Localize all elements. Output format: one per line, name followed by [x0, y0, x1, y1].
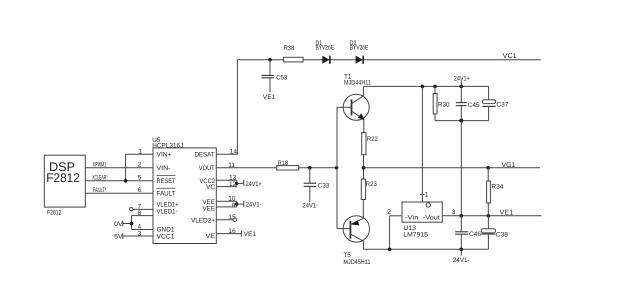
svg-text:5V: 5V	[114, 234, 123, 241]
svg-text:FAULT: FAULT	[157, 191, 176, 198]
node junction R30	[433, 85, 437, 89]
svg-text:-Vin: -Vin	[405, 215, 419, 222]
svg-text:VE1: VE1	[500, 210, 514, 217]
capacitor C46	[455, 216, 481, 250]
wire trunk pin8 to pin4	[131, 216, 133, 230]
svg-text:VIN-: VIN-	[157, 165, 171, 172]
wire top rail (anode/cathode rail to VC1)	[237, 59, 541, 61]
op-amp U5 HCPL316J gate driver IC	[152, 137, 216, 244]
svg-text:DESAT: DESAT	[195, 152, 215, 159]
svg-text:FAULT*: FAULT*	[93, 187, 107, 194]
wire base trunk T1 to T5	[336, 107, 338, 228]
svg-text:VE1: VE1	[244, 231, 257, 238]
svg-text:VLED1+: VLED1+	[157, 202, 179, 209]
svg-text:0V: 0V	[114, 221, 123, 228]
svg-text:BYV26E: BYV26E	[350, 44, 369, 51]
wire pin 1 VIN+ branch from XCLEAR line	[126, 154, 153, 181]
svg-text:BYV26E: BYV26E	[316, 44, 335, 51]
wire FAULT* from DSP to pin 6	[85, 192, 153, 194]
svg-text:VC: VC	[206, 184, 215, 191]
svg-text:24V1+: 24V1+	[454, 75, 470, 82]
wire bottom bus of 24(1)+ cluster	[435, 120, 489, 122]
node junction pins 13-12	[235, 182, 238, 185]
svg-text:R34: R34	[491, 184, 503, 191]
svg-text:VLED2+: VLED2+	[191, 217, 215, 224]
svg-text:VE1: VE1	[263, 94, 276, 101]
wire bottom rail (T5 collector / 24(1)- bus)	[364, 248, 489, 250]
svg-text:R22: R22	[367, 136, 378, 143]
wire pin 7 with no-connect hook	[130, 208, 133, 211]
svg-text:VOUT: VOUT	[199, 165, 215, 172]
capacitor C33	[304, 168, 330, 203]
wire XCLEAR* from DSP to pin 5	[85, 180, 153, 182]
svg-text:C33: C33	[318, 183, 330, 190]
wire VE1 rail from U13 pin 3	[442, 215, 541, 217]
svg-text:-Vout: -Vout	[423, 215, 440, 222]
wire XPWM1 from DSP to pin 2	[85, 167, 153, 169]
resistor R18	[277, 160, 299, 170]
svg-text:F2812: F2812	[46, 171, 80, 185]
svg-text:24V1-: 24V1-	[303, 203, 319, 210]
svg-text:RESET: RESET	[157, 178, 176, 185]
svg-text:14: 14	[230, 148, 238, 155]
wire pin 10 VEE	[216, 200, 236, 202]
svg-text:F2812: F2812	[47, 210, 62, 217]
node junction bus to VE1 drop	[459, 119, 463, 123]
wire bracket pins 13-12	[236, 180, 238, 186]
wire 24(1)+ rail (T1 collector rail)	[363, 85, 488, 87]
svg-text:C38: C38	[496, 231, 508, 238]
diode D1 BYV26E	[316, 40, 335, 64]
svg-text:C46: C46	[469, 231, 481, 238]
wire pin 11 VOUT to R18	[216, 167, 276, 169]
wire U13 pin 2	[390, 215, 402, 217]
svg-text:1: 1	[425, 192, 429, 199]
resistor R38	[283, 45, 303, 62]
wire R23 to T5 emitter	[362, 200, 364, 219]
svg-text:R18: R18	[278, 160, 289, 167]
svg-text:C37: C37	[496, 102, 508, 109]
svg-text:MJD45H11: MJD45H11	[343, 259, 370, 266]
terminal 24(1)+ at pins 13-12	[237, 180, 262, 188]
wire VG1 rail	[364, 167, 541, 169]
node junction R34/C38 on VE1 rail	[487, 214, 491, 218]
svg-text:1: 1	[138, 149, 142, 156]
terminal 24(1)+ above rail	[454, 75, 470, 86]
svg-text:R30: R30	[438, 101, 450, 108]
node junction C46 on VE1 rail	[460, 214, 464, 218]
svg-text:2: 2	[387, 209, 391, 216]
svg-text:5: 5	[138, 175, 142, 182]
capacitor C37 (polarized)	[482, 86, 508, 120]
svg-text:24V1-: 24V1-	[453, 257, 470, 264]
svg-text:C53: C53	[276, 74, 287, 81]
svg-text:24V1-: 24V1-	[246, 202, 262, 209]
svg-text:VC1: VC1	[503, 53, 517, 60]
terminal 0V	[114, 221, 131, 228]
node junction C53 tap on top rail	[268, 58, 272, 62]
svg-text:3: 3	[452, 209, 456, 216]
capacitor C45	[456, 86, 480, 120]
wire drop from bus to VE1 rail	[460, 121, 462, 216]
node junction C33 tap	[308, 166, 312, 170]
capacitor C38 (polarized)	[481, 216, 508, 250]
diode D2 BYV26E	[350, 40, 369, 64]
voltage regulator U13 LM7915	[402, 86, 442, 238]
wire R22 to junction	[363, 155, 365, 179]
svg-text:XCLEAR*: XCLEAR*	[92, 175, 108, 182]
svg-text:T5: T5	[343, 252, 351, 259]
wire pin 13 VCC2	[216, 179, 236, 181]
node junction U13 pin2 trunk on bottom rail	[388, 248, 392, 252]
svg-text:HCPL316J: HCPL316J	[152, 143, 183, 150]
svg-text:2: 2	[138, 162, 142, 169]
svg-text:GND1: GND1	[157, 227, 175, 234]
IC block DSP F2812	[44, 155, 85, 216]
node junction pins 10-9	[235, 202, 238, 205]
resistor R34	[486, 166, 503, 216]
svg-text:LM7915: LM7915	[403, 232, 428, 239]
wire pin 3	[123, 235, 153, 237]
terminal 5V	[114, 233, 123, 240]
resistor R23	[361, 179, 377, 200]
transistor T1 MJD44H11 (NPN)	[337, 74, 371, 133]
svg-text:XPWM1: XPWM1	[93, 161, 107, 168]
svg-text:6: 6	[138, 187, 142, 194]
resistor R22	[362, 133, 379, 155]
svg-text:9: 9	[232, 202, 236, 209]
node junction base trunk	[335, 166, 339, 170]
wire pin 12 VC	[216, 186, 236, 188]
node junction 24(1)+ terminal / C45	[460, 85, 464, 89]
svg-text:C45: C45	[468, 102, 480, 109]
svg-text:24V1+: 24V1+	[246, 181, 262, 188]
wire pin 15 VLED2+ with open circle	[216, 218, 236, 222]
svg-text:R23: R23	[366, 181, 377, 188]
svg-text:VEE: VEE	[203, 206, 216, 213]
wire pin 9 VEE	[216, 206, 236, 208]
wire R18 to base trunk	[299, 167, 337, 169]
svg-text:VLED1-: VLED1-	[157, 209, 178, 216]
capacitor C53	[262, 60, 288, 93]
wire U13 pin2 trunk to bottom rail	[389, 216, 391, 250]
terminal 24(1)- at pins 10-9	[237, 201, 262, 209]
wire pin 4	[132, 229, 154, 231]
wire pin 8	[132, 215, 154, 217]
node junction emitter divider / VG1	[362, 166, 366, 170]
node junction 24(1)- terminal on bottom rail	[460, 248, 464, 252]
svg-text:MJD44H11: MJD44H11	[344, 80, 371, 87]
terminal 24(1)- below bottom rail	[453, 249, 470, 264]
svg-text:VIN+: VIN+	[157, 152, 172, 159]
terminal VE1 at pin 16	[216, 230, 256, 238]
svg-text:VCC1: VCC1	[157, 234, 175, 241]
node junction on XCLEAR wire	[124, 179, 128, 183]
svg-text:VG1: VG1	[502, 162, 516, 169]
node junction U13 gnd trunk	[421, 85, 425, 89]
resistor R30	[433, 86, 450, 120]
transistor T5 MJD45H11 (PNP)	[337, 216, 371, 267]
svg-text:R38: R38	[284, 45, 295, 52]
wire bracket pins 10-9	[236, 201, 238, 207]
node junction 0V on trunk	[130, 222, 134, 226]
svg-text:VE: VE	[206, 233, 216, 240]
wire DESAT vertical from top rail down to pin 14	[216, 60, 237, 155]
